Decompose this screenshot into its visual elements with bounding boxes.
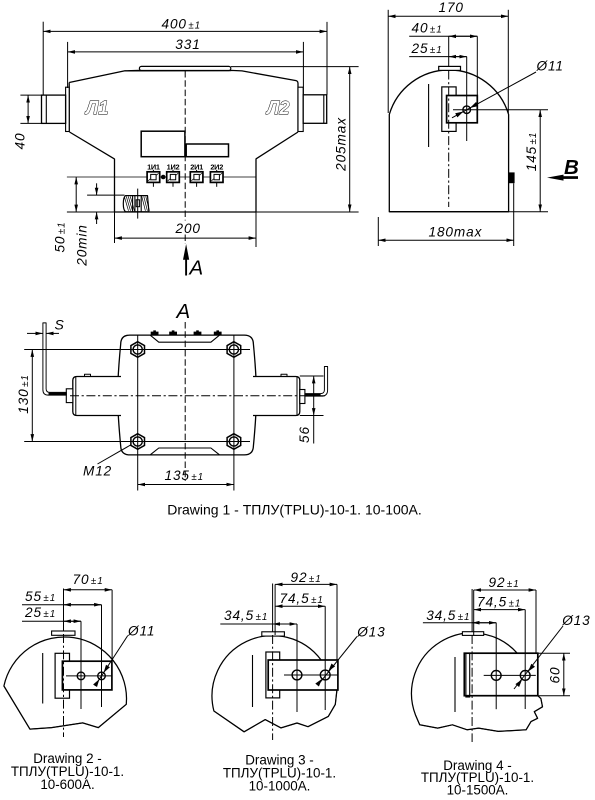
dimension 25+-1 (side)	[409, 56, 467, 58]
svg-text:60: 60	[548, 667, 563, 684]
nameplate rectangle left	[141, 131, 185, 157]
svg-text:Ø13: Ø13	[561, 613, 590, 628]
dimension 205max	[231, 66, 359, 68]
side view bottom line extension	[389, 211, 548, 213]
hole vertical centerline	[466, 57, 468, 141]
drawing 4: dome fragment	[412, 633, 543, 731]
dimension 55+-1	[22, 604, 102, 606]
svg-text:10-1500A.: 10-1500A.	[447, 782, 509, 797]
drawing 3 plate	[268, 660, 338, 690]
drawing 4 top tab	[462, 632, 483, 636]
left flange strip	[66, 87, 70, 131]
leader line D11	[452, 72, 536, 118]
drawing 3 leader D13	[319, 637, 357, 684]
dimension 180max	[377, 217, 379, 246]
drawing 3 channel	[266, 652, 280, 698]
svg-text:Ø11: Ø11	[536, 59, 564, 74]
side view vertical centerline	[448, 36, 450, 66]
dimension 74,5+-1 (d3)	[275, 605, 325, 607]
drawing 3: dome fragment	[212, 636, 337, 732]
dimension 50+-1	[75, 177, 77, 212]
inner vertical line left of bracket	[428, 84, 430, 147]
drawing 3 break line	[214, 690, 337, 732]
front view: transformer body outline	[69, 70, 298, 212]
svg-text:Ø13: Ø13	[356, 625, 385, 640]
drawing 3 hole lines	[284, 674, 338, 676]
dimension 130+-1	[31, 350, 33, 442]
dimension 40+-1 (side)	[476, 36, 478, 95]
drawing 2 channel	[55, 653, 69, 698]
terminal cover strip top	[150, 335, 219, 342]
svg-text:M12: M12	[83, 464, 112, 479]
left connector block	[66, 389, 73, 403]
right bent busbar	[305, 367, 328, 397]
right stub bump	[281, 374, 287, 376]
dimension 70+-1	[111, 590, 113, 661]
drawing 3 top tab	[262, 632, 285, 636]
svg-text:2И1: 2И1	[190, 162, 203, 171]
front view vertical centerline	[184, 71, 186, 221]
right connector block	[300, 390, 305, 404]
secondary terminals 1I1 1I2 2I1 2I2	[147, 162, 160, 187]
dimension 200	[114, 212, 116, 243]
dimension 56	[300, 375, 324, 377]
drawing 2 top tab	[52, 631, 75, 635]
svg-text:20min: 20min	[75, 224, 90, 267]
right busbar stub	[253, 377, 300, 416]
svg-text:200: 200	[175, 221, 201, 236]
svg-text:331: 331	[175, 37, 200, 52]
grounding bolt M12 side view	[123, 196, 149, 212]
side view top tab	[439, 66, 461, 70]
dimension 331	[67, 42, 69, 88]
dimension 74,5+-1 (d4)	[474, 609, 526, 611]
drawing 2 plate	[62, 661, 112, 690]
drawing 2: dome fragment	[4, 637, 127, 729]
drawing 4 leader D13	[514, 626, 563, 689]
left primary terminal stub L1	[42, 95, 66, 123]
view A body outline	[118, 335, 257, 455]
dimension 170	[387, 10, 389, 113]
dimension 34,5+-1 (d4)	[423, 622, 496, 624]
front view top cover plate	[139, 66, 230, 70]
left stub bump	[85, 374, 91, 376]
svg-text:A: A	[175, 300, 191, 323]
bolt row centerlines	[24, 349, 250, 351]
drawing 3 inner line	[252, 655, 254, 707]
svg-text:1И1: 1И1	[147, 162, 160, 171]
left busbar stub	[73, 377, 121, 416]
right flange strip	[298, 87, 303, 131]
view A vertical centerline	[184, 322, 186, 481]
corner bolts M12	[131, 342, 145, 358]
dimension S	[27, 332, 43, 334]
drawing 4 hole lines	[484, 674, 536, 676]
drawing 3 holes D13	[292, 670, 302, 680]
drawing 4 inner line	[454, 657, 456, 712]
drawing 2 holes D11	[77, 672, 85, 680]
dimension 92+-1 (d3)	[336, 584, 338, 660]
dimension 25+-1	[22, 620, 81, 622]
terminal cover strip bottom	[150, 448, 219, 455]
svg-text:B: B	[564, 156, 579, 179]
svg-text:180max: 180max	[429, 224, 483, 239]
dimension 400+-1	[42, 22, 44, 95]
drawing 2 inner line	[42, 653, 44, 704]
hole horizontal centerline / 145 top extension	[453, 109, 548, 111]
shelf line through secondary terminals	[67, 176, 256, 178]
svg-text:170: 170	[439, 0, 464, 15]
label M12 with leader	[98, 445, 132, 464]
ground dot on terminal line	[161, 175, 166, 180]
dimension 145+-1	[539, 110, 541, 212]
drawing 4 holes D13	[491, 671, 501, 681]
svg-text:A: A	[188, 257, 204, 280]
svg-text:10-600A.: 10-600A.	[40, 777, 94, 792]
svg-text:2И2: 2И2	[210, 162, 223, 171]
view A horizontal centerline	[70, 395, 325, 397]
bracket channel	[442, 87, 456, 131]
svg-text:40: 40	[13, 133, 28, 150]
front view bottom edge	[115, 211, 257, 213]
extension of bottom line for dims 50 and 205max	[67, 211, 115, 213]
drawing 4 break line	[416, 696, 543, 732]
dimension 60 (d4)	[538, 652, 570, 654]
drawing 2 centerline	[63, 589, 65, 632]
terminal screws seen from below	[151, 330, 159, 334]
bracket plate	[447, 96, 478, 123]
svg-text:Ø11: Ø11	[127, 624, 155, 639]
dimension 34,5+-1 (d3)	[220, 623, 297, 625]
nameplate rectangle right	[186, 144, 228, 157]
view arrow B	[547, 175, 564, 181]
drawing 3 centerline	[272, 584, 274, 633]
side view: dome body outline	[389, 70, 508, 212]
left bent busbar (S thickness)	[43, 323, 66, 395]
svg-text:Drawing 1 - ТПЛУ(TPLU)-10-1. 1: Drawing 1 - ТПЛУ(TPLU)-10-1. 10-100A.	[167, 501, 422, 517]
dimension 135+-1	[138, 484, 234, 486]
mounting hole D11	[463, 106, 471, 114]
right primary terminal stub L2	[303, 95, 327, 124]
dimension 40 (left stub height)	[20, 94, 43, 96]
drawing 3 dim extension centerline top	[274, 584, 276, 635]
drawing 4 centerline	[471, 589, 473, 632]
drawing 2 hole lines	[66, 675, 112, 677]
dimension 20min	[96, 183, 98, 195]
drawing 2 break line	[4, 686, 126, 729]
view arrow A (bottom)	[185, 258, 187, 276]
svg-text:S: S	[55, 317, 65, 333]
svg-text:205max: 205max	[334, 117, 349, 172]
svg-text:Л2: Л2	[265, 98, 289, 118]
drawing 4 left channel edge	[466, 653, 470, 697]
svg-text:56: 56	[297, 426, 312, 443]
svg-text:Л1: Л1	[84, 98, 108, 118]
bolt centerline	[137, 189, 139, 219]
20min extension line (bolt top)	[87, 194, 124, 196]
drawing 2 leader D11	[95, 636, 128, 686]
svg-text:1И2: 1И2	[167, 162, 180, 171]
drawing 4 dim extension centerline top	[473, 590, 475, 635]
svg-text:10-1000A.: 10-1000A.	[249, 779, 311, 794]
clamp detail right edge	[509, 172, 515, 183]
dimension 92+-1 (d4)	[535, 590, 537, 653]
drawing 4 plate	[464, 653, 538, 696]
